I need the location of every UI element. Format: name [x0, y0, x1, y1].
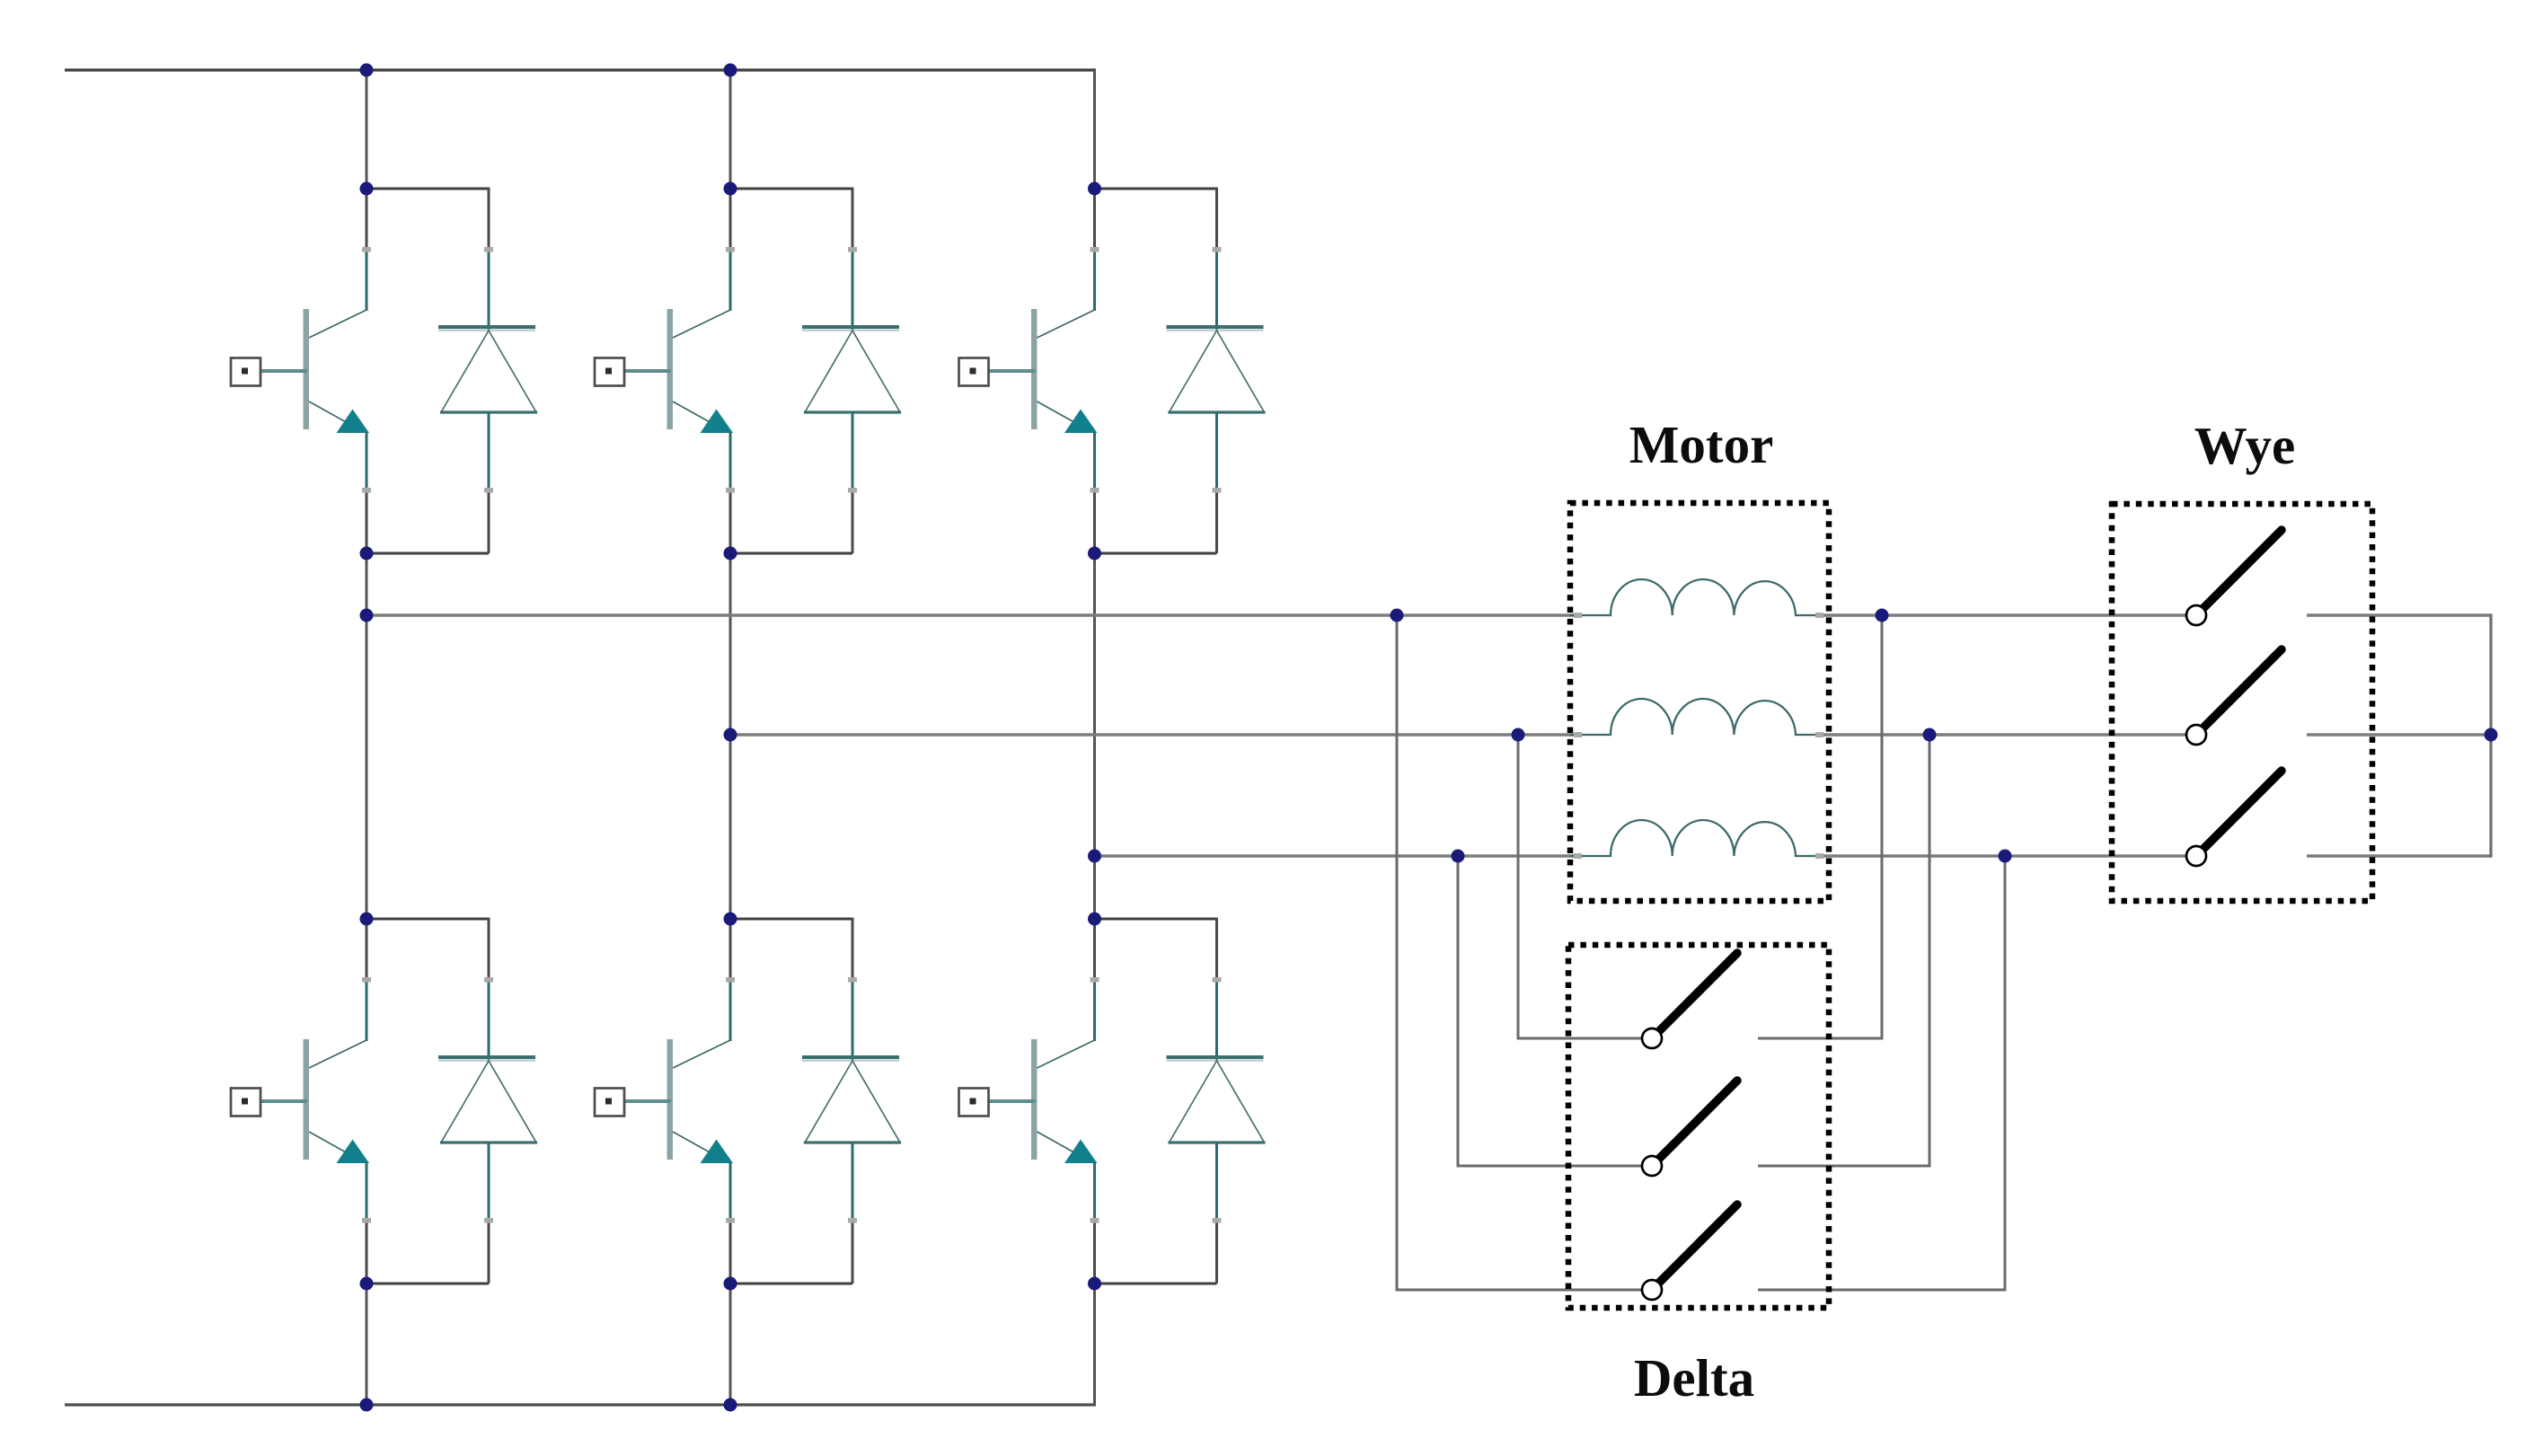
- node phase C delta tap: [1452, 850, 1465, 863]
- node leg2 lower pair bottom: [724, 1277, 737, 1291]
- svg-text:Delta: Delta: [1634, 1348, 1754, 1407]
- diode D6 (freewheeling, with parallel-connection wires): [1093, 918, 1266, 1284]
- node leg3 upper pair top: [1088, 182, 1101, 196]
- node leg1 upper pair bottom: [360, 547, 374, 560]
- transistor Q6: [959, 918, 1099, 1284]
- diode D2 (freewheeling, with parallel-connection wires): [366, 918, 538, 1284]
- wire leg1 lower segment: [366, 1284, 368, 1405]
- wire phase A motor to wye switch: [1822, 613, 2186, 617]
- node leg3 lower pair bottom: [1088, 1277, 1101, 1291]
- node phase C output: [1088, 850, 1101, 863]
- transistor Q1: [231, 188, 371, 554]
- wire phase C motor to wye switch: [1822, 854, 2186, 858]
- transistor Q5: [959, 188, 1099, 554]
- node phase B delta tap: [1512, 728, 1525, 742]
- diode D5 (freewheeling, with parallel-connection wires): [1093, 188, 1266, 554]
- node top rail / leg1: [360, 64, 374, 77]
- wire leg2 upper segment: [729, 70, 732, 189]
- switch S2 (delta contactor 2): [1642, 1081, 1737, 1176]
- wire wye neutral bus: [2489, 614, 2492, 858]
- node phase A output: [360, 609, 374, 622]
- node top rail / leg2: [724, 64, 737, 77]
- wire phase A from leg1 to motor: [366, 613, 1578, 617]
- switch S1 (delta contactor 1): [1642, 953, 1737, 1048]
- wire phase C wye switch output: [2307, 854, 2493, 858]
- inductor L1 (phase A) (motor phase winding): [1570, 579, 1823, 618]
- switch S5 (wye contactor phase B): [2186, 649, 2282, 745]
- wire leg1 phase-A link: [366, 553, 368, 919]
- diode D4 (freewheeling, with parallel-connection wires): [729, 918, 902, 1284]
- wire leg2 phase-B link: [729, 553, 732, 919]
- inductor L3 (phase C) (motor phase winding): [1570, 820, 1823, 859]
- wire bottom DC- rail: [65, 1403, 1096, 1406]
- motor dotted enclosure box: [1570, 503, 1829, 901]
- node phase A delta return: [1876, 609, 1889, 622]
- node bottom rail / leg1: [360, 1399, 374, 1412]
- node leg1 lower pair bottom: [360, 1277, 374, 1291]
- transistor Q3: [595, 188, 735, 554]
- switch S6 (wye contactor phase C): [2186, 771, 2282, 866]
- node wye neutral: [2485, 728, 2498, 742]
- node phase B delta return: [1923, 728, 1937, 742]
- wire delta branch from phase C node down to switch S2: [1458, 856, 1642, 1166]
- wire delta switch S1 output riser to phase A: [1758, 615, 1882, 1038]
- node leg3 lower pair top: [1088, 913, 1101, 926]
- wire phase B from leg2 to motor: [730, 733, 1578, 737]
- node phase A delta tap: [1391, 609, 1404, 622]
- transistor Q4: [595, 918, 735, 1284]
- node leg1 lower pair top: [360, 913, 374, 926]
- wire leg3 phase-C link: [1093, 553, 1096, 919]
- wire delta switch S2 output riser to phase B: [1758, 735, 1929, 1166]
- wire top DC+ rail: [65, 68, 1096, 71]
- wire delta branch from phase B node down to switch S1: [1518, 735, 1642, 1038]
- svg-text:Motor: Motor: [1629, 415, 1774, 474]
- delta dotted enclosure box: [1568, 945, 1829, 1308]
- node leg2 upper pair top: [724, 182, 737, 196]
- diode D1 (freewheeling, with parallel-connection wires): [366, 188, 538, 554]
- svg-text:Wye: Wye: [2194, 416, 2296, 475]
- wire leg2 lower segment: [729, 1284, 732, 1405]
- wire phase C from leg3 to motor: [1095, 854, 1579, 858]
- inductor L2 (phase B) (motor phase winding): [1570, 699, 1823, 737]
- wire leg3 upper segment (rail corner): [1093, 70, 1096, 189]
- wye dotted enclosure box: [2112, 504, 2372, 901]
- transistor Q2: [231, 918, 371, 1284]
- switch S3 (delta contactor 3): [1642, 1205, 1737, 1300]
- wire phase B motor to wye switch: [1822, 733, 2186, 737]
- wire phase A wye switch output: [2307, 613, 2493, 617]
- wire leg3 lower segment: [1093, 1284, 1096, 1405]
- node leg2 upper pair bottom: [724, 547, 737, 560]
- diode D3 (freewheeling, with parallel-connection wires): [729, 188, 902, 554]
- wire leg1 upper segment: [366, 70, 368, 189]
- node leg1 upper pair top: [360, 182, 374, 196]
- wire phase B wye switch output: [2307, 733, 2491, 737]
- wire delta branch from phase A node down to switch S3: [1397, 615, 1642, 1290]
- switch S4 (wye contactor phase A): [2186, 530, 2282, 625]
- node phase C delta return: [1999, 850, 2012, 863]
- node leg2 lower pair top: [724, 913, 737, 926]
- wire delta switch S3 output riser to phase C: [1758, 856, 2005, 1290]
- node bottom rail / leg2: [724, 1399, 737, 1412]
- node phase B output: [724, 728, 737, 742]
- node leg3 upper pair bottom: [1088, 547, 1101, 560]
